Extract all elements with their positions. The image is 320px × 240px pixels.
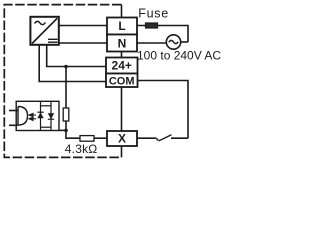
terminal N box [107, 35, 137, 52]
outline segment below X [121, 146, 123, 157]
wire R2 to X [94, 137, 108, 139]
terminal X box [107, 131, 137, 146]
light arrow lower [29, 117, 36, 120]
converter DC bars [48, 38, 58, 40]
node junction on 24+ wire [64, 65, 68, 69]
diode D1 (up) [40, 102, 42, 130]
switch S1 contact dot [156, 138, 158, 140]
optocoupler box [16, 101, 59, 130]
svg-text:4.3kΩ: 4.3kΩ [65, 142, 98, 156]
converter AC tilde [35, 21, 46, 24]
diode D2 (down) [50, 102, 52, 130]
outline segment between N and 24+ [121, 52, 123, 58]
wire switch to loop [171, 137, 188, 139]
resistor R2 4.3k (horizontal) [80, 136, 94, 142]
diode rail top [41, 105, 52, 107]
svg-text:24+: 24+ [112, 59, 132, 73]
wire converter to L [58, 25, 108, 27]
optocoupler left pin lower [9, 124, 18, 126]
terminal COM box [106, 74, 138, 88]
switch S1 blade [159, 135, 172, 141]
AC source G1 [166, 35, 180, 49]
light arrow upper [29, 113, 36, 116]
outline segment above terminal L [121, 5, 123, 18]
resistor R1 (vertical) [63, 108, 69, 121]
wire N to source [137, 42, 166, 44]
photodetector D shape [18, 107, 28, 126]
device outline (dashed) [4, 5, 121, 158]
converter diagonal [32, 18, 57, 43]
terminal L box [107, 18, 137, 35]
svg-text:L: L [118, 19, 125, 33]
terminal 24+ box [106, 58, 138, 74]
svg-text:N: N [118, 37, 127, 51]
wire source to loop [181, 41, 188, 43]
wire R1 to corner [66, 121, 80, 138]
fuse F1 [146, 23, 158, 28]
optocoupler left pin upper [9, 110, 18, 112]
svg-text:X: X [118, 132, 126, 146]
diode rail bottom [41, 126, 52, 128]
wire junction down to resistor R1 [65, 67, 67, 109]
wire converter to N [58, 42, 108, 44]
wire optocoupler to junction [59, 129, 66, 131]
outline segment between COM and X [121, 87, 123, 131]
wire converter to 24+ [47, 45, 106, 67]
svg-text:Fuse: Fuse [138, 6, 169, 20]
node junction optocoupler tap [64, 129, 68, 133]
wire L to fuse to loop [137, 26, 188, 43]
converter U1 AC/DC box [30, 17, 58, 45]
svg-text:COM: COM [109, 76, 135, 88]
wire X to switch [137, 137, 157, 139]
wire COM to switch loop [138, 81, 189, 139]
wire converter to COM [39, 45, 106, 82]
svg-text:100 to 240V AC: 100 to 240V AC [137, 48, 221, 62]
